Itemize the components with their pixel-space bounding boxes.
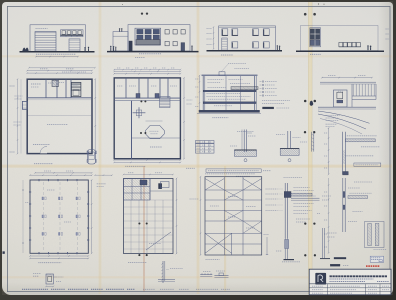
left margin tick (10, 85, 15, 87)
plan 4 outline (124, 179, 174, 254)
elevation 4 tall block (310, 28, 321, 47)
wall detail B1 bubble (244, 159, 247, 162)
plan 4 right dim (176, 179, 178, 254)
wall detail B2 slab hatched (280, 148, 299, 155)
sheet edge shading bottom (2, 282, 392, 295)
right lower top label (354, 181, 372, 183)
approval stamp box (370, 256, 383, 262)
right detail text block 2 (326, 123, 337, 125)
wall detail B1 vertical wall (243, 130, 245, 153)
vertical fold line x=144 reddish (143, 166, 144, 292)
section upper text rows (208, 79, 224, 81)
title block cell texts (312, 285, 323, 287)
title block firm name bold (330, 275, 388, 277)
plan 1 interior line (28, 115, 91, 117)
plan 1 left leader texts (15, 95, 23, 97)
elevation 1 label above door (36, 28, 48, 30)
plan 2 bay outline (146, 120, 163, 122)
solid dark bar below section (263, 107, 274, 109)
right lower wall leaders (350, 192, 372, 194)
elevation 1 figures right (84, 47, 85, 48)
right wall section lower texts (345, 155, 373, 157)
elevation 2 balcony rail hatched (136, 40, 160, 46)
plan 4 punch dots (138, 222, 140, 224)
section chimney (219, 72, 225, 76)
right wall section slab (345, 139, 375, 142)
plan 2 caption (125, 165, 145, 167)
plan 3 wall ticks (38, 179, 40, 181)
assembly base (284, 259, 295, 261)
bottom notes row (22, 288, 48, 290)
plan 1 hall label (47, 124, 68, 126)
small bars above title block (334, 257, 346, 259)
elevation 2 small windows lower row (165, 41, 169, 45)
plan 4 grid horizontals (124, 199, 174, 201)
plan 2 octagon (146, 126, 165, 139)
assembly leader texts left (266, 188, 278, 190)
elevation 2 ground line (107, 51, 199, 53)
plan 1 door blob (52, 80, 58, 86)
plan 4 top dims (124, 174, 174, 176)
plan 3 bottom dims (30, 255, 88, 257)
title block logo (316, 273, 326, 284)
right wall section vertical dim (328, 128, 330, 174)
right lower detail 2 (322, 228, 324, 258)
small detail bottom 1 (200, 274, 212, 276)
plan 2 top dimension lines (114, 70, 180, 72)
plan 1 long top dimension (29, 67, 95, 69)
elevation 4 caption (310, 53, 321, 55)
wall detail B1 leaders (237, 131, 254, 133)
section caption (212, 117, 228, 119)
elevation 3 entry door (222, 38, 227, 50)
vertical fold line x=310 strong (308, 2, 312, 294)
elevation 3 figures right (277, 45, 278, 46)
car dim segment (95, 174, 112, 176)
horizontal fold line y=166 (2, 165, 392, 168)
right detail bays (352, 84, 354, 96)
right detail shaft (334, 90, 348, 107)
section top annotations (228, 63, 246, 65)
section lower text row (214, 105, 232, 107)
boxed note mid sheet (206, 169, 261, 172)
elevation 3 caption (221, 54, 233, 56)
window schedule table (196, 141, 215, 154)
plan 5 top note (205, 173, 255, 175)
title block divider (309, 283, 391, 285)
elevation 1 (west) outline (30, 25, 86, 52)
right lower vertical dim continuation (328, 178, 330, 253)
section right wall (254, 76, 256, 111)
title block rows (309, 287, 391, 289)
vertical fold line x=198 (197, 2, 200, 294)
elevation 2 caption (139, 53, 161, 55)
elevation 3 left height dims (213, 27, 215, 49)
elevation 2 right door dark (181, 43, 185, 51)
building section drawing roof (202, 75, 258, 77)
plan 5 X braces top (205, 179, 224, 191)
elevation 1 ground line (20, 51, 95, 53)
plan 3 top dims (35, 172, 92, 174)
column footing detail (46, 274, 53, 284)
assembly lower portion (284, 238, 286, 259)
vertical fold line x=100 (99, 2, 102, 294)
right margin tick marks (386, 28, 390, 30)
elevation 1 bush left (23, 48, 29, 51)
plan 2 outer walls (114, 78, 180, 159)
right mid leaders near fold (296, 218, 310, 220)
left margin mark (3, 252, 5, 254)
text between plans (190, 198, 199, 200)
assembly dark joint (284, 192, 291, 198)
right lower wall slab (348, 196, 368, 199)
elevation 3 upper windows (222, 29, 228, 36)
plan 3 dashed axis lines (42, 182, 44, 251)
plan 1 door arcs bottom (40, 152, 47, 154)
plan 1 top rooms partitions (27, 97, 92, 99)
horizontal fold line y=277 (2, 276, 392, 278)
right detail text block 1 (326, 115, 340, 117)
plan 5 big X bottom left (205, 233, 232, 253)
plan 2 top rooms (114, 97, 180, 99)
horizontal fold line y=56 (2, 55, 392, 57)
sheet edge shading right (378, 1, 393, 295)
ink blot near fold (310, 101, 313, 106)
section slab 1 (203, 90, 256, 92)
red date stamp (366, 265, 380, 267)
assembly top label (284, 176, 303, 178)
lower half warm tint (2, 166, 392, 292)
right lower detail wall lines A (311, 132, 313, 152)
right boxed note (354, 163, 381, 166)
plan 4 caption (128, 261, 147, 263)
elevation 3 outline (219, 26, 276, 50)
vertical fold line x=225 lower (224, 166, 226, 292)
elevation 2 annex figures (119, 28, 120, 29)
plan 2 top room labels (117, 85, 123, 87)
punch holes top left pair (141, 12, 143, 14)
assembly horizontal bar hatched (291, 193, 312, 196)
plan 2 top dark doors (136, 94, 140, 99)
assembly leader texts right (294, 187, 310, 189)
section annotation leaders right (260, 81, 262, 83)
plan 1 top dimension lines (27, 70, 92, 72)
plan 1 stair room dark (71, 82, 81, 96)
elevation 4 low window row (339, 42, 343, 46)
elevation 4 tall block lower panes (310, 40, 319, 46)
section slab 2 (203, 102, 256, 104)
elevation 4 ground line (296, 50, 384, 52)
right lower long wall detail (342, 178, 344, 232)
curved road lines (318, 111, 370, 123)
assembly second bar (291, 197, 320, 199)
right detail plan lines (320, 81, 376, 83)
elevation 2 left annex (113, 32, 128, 51)
right wall section wall lines (342, 132, 344, 175)
bottom mid-right assembly detail (284, 183, 286, 238)
small vertical detail left of assembly (266, 237, 268, 255)
elevation 1 caption (36, 53, 76, 55)
elevation 2 stair window group (135, 28, 161, 45)
elevation 2 main outline (128, 25, 190, 51)
elevation 3 ground line (207, 50, 283, 52)
plan 2 lower room line (132, 137, 181, 139)
plan 2 bottom dims (114, 159, 180, 161)
plan 1 outer walls (27, 79, 92, 153)
title block frame (309, 269, 391, 295)
plan 1 top rooms labels (31, 83, 41, 85)
right detail top dim line (322, 77, 372, 79)
corner detail bottom centre (162, 261, 164, 283)
plan 4 top-left hatched rooms (124, 179, 151, 201)
plan 2 stair upper right (160, 97, 171, 108)
elevation 4 figures (367, 45, 369, 47)
wall detail B2 leaders (276, 134, 285, 136)
section left wall (202, 76, 204, 111)
assembly bottom label (282, 261, 300, 263)
elevation 4 outline (301, 26, 379, 51)
plan 3 right dim (91, 180, 93, 253)
section middle text rows (207, 93, 241, 95)
plan 1 lower note (33, 144, 50, 146)
note below (236, 175, 250, 177)
plan 3 caption (38, 262, 61, 264)
plan 4 dark fills (140, 180, 147, 185)
plan 5 caption (206, 258, 220, 260)
section ground slab (199, 110, 260, 112)
plan 4 top right room (149, 179, 151, 201)
plan 3 outline (30, 180, 88, 253)
plan 1 caption (34, 163, 53, 165)
plan 2 corridor line (114, 100, 180, 102)
title block column dividers (327, 284, 329, 295)
elevation 1 window band (61, 30, 84, 37)
elevation 2 figure right (191, 46, 192, 47)
plan 1 right dims (94, 79, 96, 153)
elevation 1 garage door hatched (35, 32, 56, 51)
plan 2 right dim (183, 78, 185, 159)
plan 4 grid verticals (130, 200, 132, 254)
right detail base lines (318, 106, 376, 108)
plan 3 inner texts (47, 189, 55, 191)
punch holes mid-left pairs (140, 100, 142, 102)
dust specks top edge (318, 3, 319, 4)
right wall section top leader (347, 135, 377, 137)
right wall section bottom dark (343, 172, 349, 175)
wall detail B1 slab hatched (234, 150, 256, 156)
wall detail B2 vertical wall (287, 131, 289, 148)
plan 1 left bump-out (22, 101, 27, 109)
right wall section label (361, 146, 380, 148)
elevation 2 figures left (110, 46, 111, 47)
right jamb detail box (365, 222, 385, 248)
plan 2 cross symbol (133, 112, 146, 114)
elevation 4 tall block windows dark (310, 29, 319, 39)
plan 4 diagonal member (146, 232, 171, 250)
small detail bottom 2 (214, 275, 228, 277)
plan 5 grid (223, 177, 225, 255)
plan 2 upper dim numbers (114, 69, 180, 71)
punch holes mid-right pairs (304, 100, 307, 103)
section interior columns (225, 76, 227, 111)
elevation 2 left door dark (129, 41, 132, 51)
elevation 3 lower windows (232, 42, 238, 48)
plan 1 car symbol (88, 150, 96, 165)
plan 1 left vertical dims (17, 79, 19, 153)
plan 3 left small marks (25, 202, 28, 204)
plan 5 labels (228, 196, 238, 198)
plan 3 interior column symbols (42, 197, 43, 200)
section left dim line (198, 76, 200, 111)
wall detail B2 bubble (288, 159, 291, 162)
plan 5 left dims (200, 177, 202, 255)
elevation 1 dim line below (36, 56, 78, 58)
plan 5 X braces middle (224, 190, 243, 200)
title block address lines (330, 278, 374, 280)
elevation 1 right door (69, 39, 80, 51)
punch holes top right pair (304, 13, 307, 16)
punch holes lower right pairs (304, 222, 306, 224)
plan 2 interior dividing wall (131, 101, 133, 159)
elevation 2 small windows upper row (165, 30, 169, 34)
plan 5 outline (205, 177, 262, 255)
section upper hatched band (231, 87, 258, 90)
